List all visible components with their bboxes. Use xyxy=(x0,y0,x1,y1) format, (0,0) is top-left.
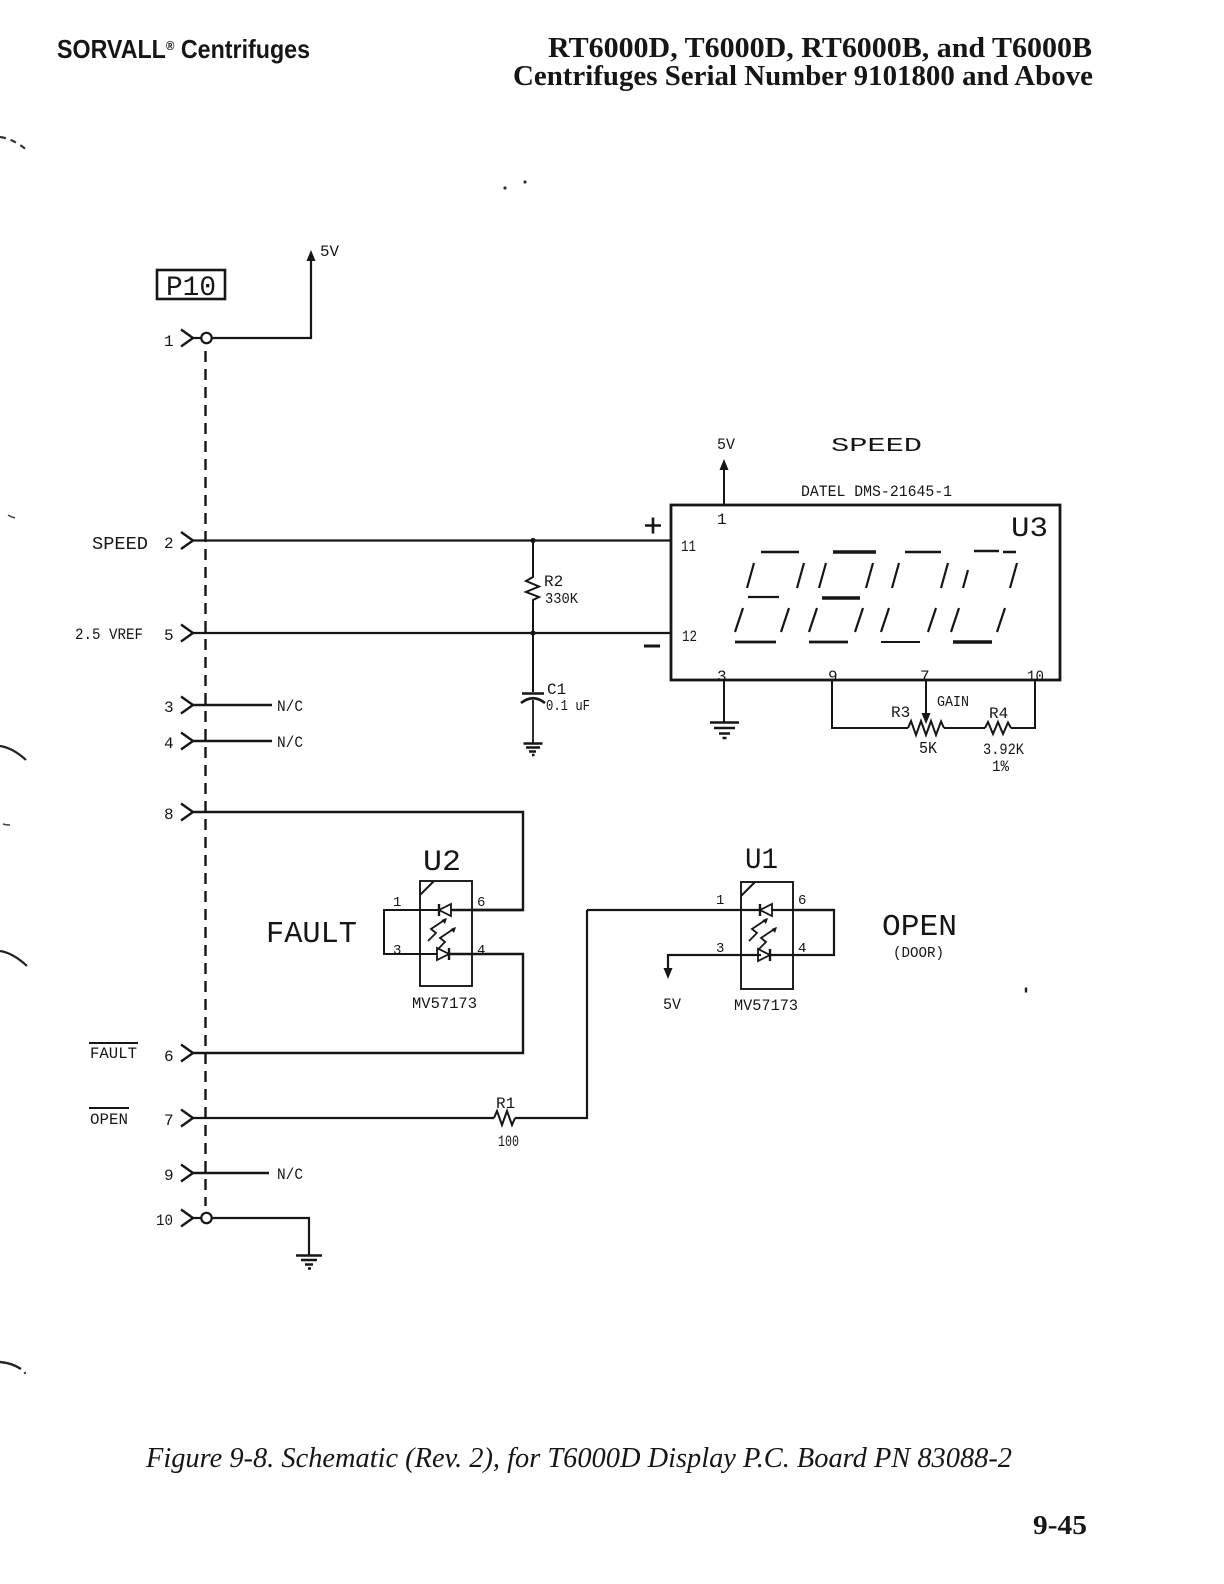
svg-text:OPEN: OPEN xyxy=(882,910,957,945)
svg-text:N/C: N/C xyxy=(277,1166,303,1184)
svg-text:OPEN: OPEN xyxy=(90,1111,128,1129)
display digit lower slanted segments xyxy=(735,608,1005,632)
svg-text:U2: U2 xyxy=(423,846,461,880)
connector P10 label box xyxy=(157,270,225,299)
svg-text:R1: R1 xyxy=(496,1095,515,1113)
wire R3 to R4 xyxy=(944,727,985,729)
svg-text:2: 2 xyxy=(164,535,174,553)
svg-text:3: 3 xyxy=(393,943,401,959)
P10 pin 7 chevron xyxy=(181,1110,193,1127)
svg-text:C1: C1 xyxy=(547,681,566,699)
svg-text:1%: 1% xyxy=(992,758,1009,776)
ground symbol U3 pin 3 xyxy=(710,723,739,739)
U2 chamfer corner xyxy=(420,881,434,895)
svg-text:3: 3 xyxy=(164,699,174,717)
svg-text:SPEED: SPEED xyxy=(92,535,148,555)
svg-text:5V: 5V xyxy=(717,436,735,454)
svg-text:GAIN: GAIN xyxy=(937,694,969,711)
wire U3 pin 3 to ground xyxy=(723,680,725,722)
wire VREF pin5 to U3 pin12 xyxy=(192,632,671,634)
scan artifact arc bottom-left xyxy=(0,1362,21,1369)
U1 LED 1 (cathode bar + triangle) xyxy=(759,904,761,916)
svg-text:6: 6 xyxy=(477,895,485,911)
svg-text:N/C: N/C xyxy=(277,698,303,716)
svg-text:9-45: 9-45 xyxy=(1033,1510,1087,1540)
svg-text:FAULT: FAULT xyxy=(90,1045,137,1063)
wire pin10 to ground xyxy=(212,1218,309,1255)
resistor R2 (vertical) xyxy=(526,538,539,633)
svg-text:1: 1 xyxy=(717,511,727,529)
svg-text:SORVALL® Centrifuges: SORVALL® Centrifuges xyxy=(57,34,310,64)
scan speck dots xyxy=(503,186,506,189)
scan artifact arc lower-left xyxy=(0,746,26,760)
5V arrow top xyxy=(307,250,316,261)
wire pin1 to 5V xyxy=(212,257,311,338)
U2 LED 2 stub to pin 4 xyxy=(449,953,472,955)
svg-text:9: 9 xyxy=(164,1167,174,1185)
capacitor C1 xyxy=(532,633,534,692)
svg-text:MV57173: MV57173 xyxy=(412,995,477,1013)
svg-text:4: 4 xyxy=(477,943,485,959)
resistor R4 zigzag xyxy=(985,722,1011,734)
U1 pins 6-4 tie bracket xyxy=(793,910,834,955)
svg-text:Centrifuges Serial Number 9101: Centrifuges Serial Number 9101800 and Ab… xyxy=(513,61,1093,92)
wire U1 pin 3 to 5V xyxy=(668,955,761,970)
P10 pin 10 chevron xyxy=(181,1210,193,1227)
minus sign at pin 12 xyxy=(644,645,660,648)
R3 wiper arrow from U3 pin 7 xyxy=(925,680,927,714)
wire pin4 stub xyxy=(192,740,272,743)
potentiometer R3 zigzag xyxy=(908,721,944,735)
svg-text:10: 10 xyxy=(156,1212,173,1230)
svg-text:(DOOR): (DOOR) xyxy=(893,945,944,962)
wire U2 pin4 to P10 pin6 xyxy=(192,954,523,1053)
wire R4 to U3 pin 10 xyxy=(1011,680,1035,728)
wire pin3 stub xyxy=(192,704,272,707)
U2 pins 1-3 tie bracket xyxy=(384,910,438,954)
optocoupler U1 box xyxy=(741,882,793,989)
svg-text:N/C: N/C xyxy=(277,734,303,752)
svg-text:RT6000D, T6000D, RT6000B, and: RT6000D, T6000D, RT6000B, and T6000B xyxy=(548,33,1092,64)
wire U3 pin 9 down xyxy=(832,680,908,728)
svg-text:6: 6 xyxy=(164,1048,174,1066)
wire U1 pin 1 from left vertical xyxy=(587,909,760,911)
svg-text:R4: R4 xyxy=(989,705,1008,723)
svg-text:MV57173: MV57173 xyxy=(734,997,798,1015)
svg-text:P10: P10 xyxy=(166,273,216,304)
wire pin9 stub xyxy=(192,1172,269,1175)
junction node C1 top on VREF wire xyxy=(530,630,535,635)
scan artifact tick left xyxy=(3,824,10,825)
svg-text:5K: 5K xyxy=(919,740,938,759)
svg-text:U3: U3 xyxy=(1011,514,1048,545)
U1 light emission arrows xyxy=(749,919,767,941)
dashed connector bus line xyxy=(204,351,206,1206)
P10 pin 5 chevron xyxy=(181,625,193,642)
svg-text:5V: 5V xyxy=(663,996,681,1014)
svg-text:5: 5 xyxy=(164,627,174,645)
svg-text:Figure 9-8. Schematic (Rev. 2: Figure 9-8. Schematic (Rev. 2), for T600… xyxy=(145,1443,1012,1474)
svg-text:12: 12 xyxy=(682,628,697,646)
display digit bottom bars xyxy=(735,641,776,644)
junction circle pin 1 xyxy=(193,337,201,339)
svg-text:7: 7 xyxy=(164,1112,174,1130)
plus sign at pin 11 xyxy=(645,518,661,534)
P10 pin 2 chevron xyxy=(181,532,193,549)
ground symbol pin10 xyxy=(296,1256,322,1269)
P10 pin 8 chevron xyxy=(181,804,193,821)
scan artifact arc mid-left xyxy=(8,515,15,518)
display module U3 box xyxy=(671,505,1060,680)
svg-text:7: 7 xyxy=(920,668,930,686)
svg-text:330K: 330K xyxy=(545,591,578,608)
svg-text:R2: R2 xyxy=(544,573,563,591)
svg-text:6: 6 xyxy=(798,893,806,909)
U2 LED 2 (triangle + cathode bar) xyxy=(437,948,449,960)
svg-text:R3: R3 xyxy=(891,704,910,722)
svg-text:1: 1 xyxy=(393,895,401,911)
wire R1 to U1 left vertical xyxy=(515,910,587,1118)
P10 pin 6 chevron xyxy=(181,1045,193,1062)
svg-text:3: 3 xyxy=(717,668,727,686)
U1 LED 2 stub to pin 4 xyxy=(770,954,793,956)
U1 LED 2 (triangle + cathode bar) xyxy=(758,949,770,961)
wire pin7 to R1 xyxy=(192,1117,494,1119)
P10 pin 9 chevron xyxy=(181,1165,193,1182)
svg-text:8: 8 xyxy=(164,806,174,824)
svg-text:U1: U1 xyxy=(745,844,778,878)
svg-text:11: 11 xyxy=(681,538,696,556)
svg-text:5V: 5V xyxy=(320,243,339,261)
5V arrow into U3 pin 1 xyxy=(720,459,729,470)
svg-text:SPEED: SPEED xyxy=(831,435,922,457)
wire pin8 to U2 pin6 xyxy=(192,812,523,910)
U2 LED 1 stub to pin 6 xyxy=(451,909,523,911)
optocoupler U2 box xyxy=(420,881,472,986)
svg-text:2.5 VREF: 2.5 VREF xyxy=(75,626,143,644)
svg-text:4: 4 xyxy=(164,735,174,753)
svg-text:1: 1 xyxy=(164,333,174,351)
svg-text:100: 100 xyxy=(498,1133,519,1151)
svg-text:DATEL DMS-21645-1: DATEL DMS-21645-1 xyxy=(801,483,952,501)
svg-text:FAULT: FAULT xyxy=(266,917,357,952)
scan artifact arc top-left xyxy=(0,137,28,151)
U2 LED 1 (cathode bar + triangle) xyxy=(438,904,440,916)
U2 light emission arrows xyxy=(428,919,446,941)
P10 pin 1 chevron xyxy=(181,330,193,347)
P10 pin 3 chevron xyxy=(181,697,193,714)
resistor R1 zigzag xyxy=(494,1111,515,1125)
junction circle pin 10 xyxy=(193,1217,201,1219)
svg-text:1: 1 xyxy=(716,893,724,909)
P10 pin 4 chevron xyxy=(181,733,193,750)
display digit segments row 1 top bars xyxy=(761,551,799,554)
svg-text:3.92K: 3.92K xyxy=(983,741,1024,759)
ground symbol C1 xyxy=(524,744,543,756)
FAULT overline xyxy=(89,1042,138,1044)
U1 LED 1 stub to pin 6 xyxy=(772,909,834,911)
display digit middle bars xyxy=(748,596,779,598)
svg-text:0.1 uF: 0.1 uF xyxy=(546,698,590,715)
scan artifact arc left lower xyxy=(0,951,27,966)
OPEN overline xyxy=(89,1107,129,1109)
display digit upper slanted segments xyxy=(747,563,1017,588)
5V arrow down at U1 pin 3 xyxy=(664,968,673,979)
junction node R2 top on SPEED wire xyxy=(530,538,535,543)
wire SPEED pin2 to U3 pin11 xyxy=(192,539,671,541)
U1 chamfer corner xyxy=(741,882,755,896)
